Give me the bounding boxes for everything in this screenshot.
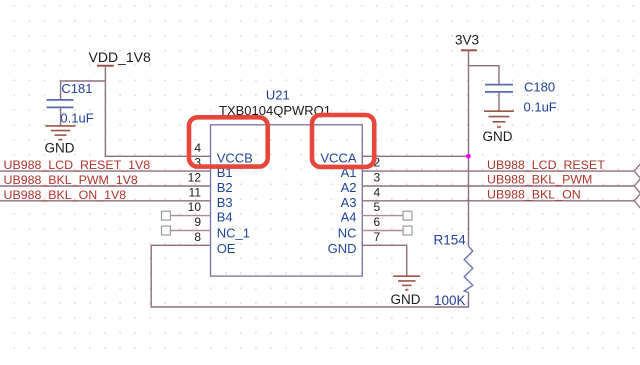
junction dot <box>466 154 471 159</box>
svg-text:A4: A4 <box>341 210 357 225</box>
svg-text:7: 7 <box>373 230 380 244</box>
off-page connector chevron BKL_PWM <box>634 177 640 194</box>
wire 3V3 vertical <box>468 50 470 246</box>
svg-text:OE: OE <box>217 241 236 256</box>
svg-text:VCCB: VCCB <box>217 150 253 165</box>
svg-text:8: 8 <box>194 230 201 244</box>
pin stub NC <box>362 230 403 232</box>
svg-text:NC_1: NC_1 <box>217 226 250 241</box>
svg-text:NC: NC <box>338 226 357 241</box>
highlight box VCCA <box>312 115 374 167</box>
pin stub A4 <box>362 215 403 217</box>
highlight box VCCB <box>189 117 268 166</box>
svg-text:R154: R154 <box>434 233 467 248</box>
wire net UB988_LCD_RESET <box>362 170 635 172</box>
op IC U21 body <box>211 125 363 276</box>
wire C181 branch <box>61 81 106 100</box>
svg-text:B2: B2 <box>217 180 233 195</box>
svg-text:A2: A2 <box>341 180 357 195</box>
svg-text:3V3: 3V3 <box>455 32 479 47</box>
power symbol 3V3 <box>455 32 479 50</box>
svg-text:C181: C181 <box>61 81 92 96</box>
svg-text:B4: B4 <box>217 210 233 225</box>
svg-text:0.1uF: 0.1uF <box>524 99 557 114</box>
svg-text:UB988_LCD_RESET: UB988_LCD_RESET <box>487 158 605 172</box>
svg-text:VCCA: VCCA <box>320 150 356 165</box>
no-connect square NC_1 <box>162 226 171 235</box>
svg-text:VDD_1V8: VDD_1V8 <box>89 49 151 65</box>
ground below C180 <box>483 111 515 144</box>
svg-text:U21: U21 <box>266 88 290 103</box>
pin stub B4 <box>171 215 211 217</box>
svg-text:B3: B3 <box>217 195 233 210</box>
wire VDD_1V8 vertical <box>105 66 210 157</box>
svg-text:UB988_BKL_ON_1V8: UB988_BKL_ON_1V8 <box>4 188 127 202</box>
wire net UB988_BKL_ON_1V8 <box>0 200 211 202</box>
svg-text:GND: GND <box>328 241 357 256</box>
ground below C181 <box>45 126 76 156</box>
capacitor C180 <box>485 79 557 114</box>
wire net UB988_BKL_PWM <box>362 185 635 187</box>
svg-text:12: 12 <box>188 171 202 185</box>
ground below IC <box>391 276 421 307</box>
svg-text:0.1uF: 0.1uF <box>60 111 93 126</box>
svg-text:10: 10 <box>188 200 202 214</box>
wire net UB988_LCD_RESET_1V8 <box>0 170 211 172</box>
pin stub NC_1 <box>171 230 211 232</box>
svg-text:4: 4 <box>373 185 380 199</box>
svg-text:6: 6 <box>373 215 380 229</box>
wire GND pin <box>362 245 406 276</box>
wire net UB988_BKL_ON <box>362 200 635 202</box>
svg-text:UB988_BKL_PWM_1V8: UB988_BKL_PWM_1V8 <box>4 173 138 187</box>
wire VCCA to 3V3 <box>362 155 468 157</box>
svg-text:100K: 100K <box>434 293 466 308</box>
svg-text:GND: GND <box>391 292 421 307</box>
wire OE to R154 bottom <box>151 245 468 307</box>
svg-text:GND: GND <box>483 129 513 144</box>
svg-text:UB988_BKL_PWM: UB988_BKL_PWM <box>487 173 592 187</box>
wire C180 branch <box>469 66 500 85</box>
svg-text:GND: GND <box>45 141 75 156</box>
off-page connector chevron BKL_ON <box>634 192 640 209</box>
wire net UB988_BKL_PWM_1V8 <box>0 185 211 187</box>
svg-text:9: 9 <box>194 215 201 229</box>
off-page connector chevron LCD_RESET <box>634 163 640 180</box>
wire C181 to ground <box>60 107 62 125</box>
svg-text:11: 11 <box>189 185 202 199</box>
svg-text:A3: A3 <box>341 195 357 210</box>
svg-text:4: 4 <box>194 141 201 155</box>
pin number 1 (mostly hidden behind highlight box) <box>375 145 376 147</box>
capacitor C181 <box>47 81 94 126</box>
no-connect square B4 <box>162 211 171 220</box>
power symbol VDD_1V8 <box>89 49 151 66</box>
svg-text:UB988_BKL_ON: UB988_BKL_ON <box>487 188 581 202</box>
svg-text:UB988_LCD_RESET_1V8: UB988_LCD_RESET_1V8 <box>4 158 151 172</box>
svg-text:3: 3 <box>373 171 380 185</box>
wire C180 to ground <box>498 92 500 111</box>
no-connect square A4 <box>403 211 412 220</box>
svg-text:C180: C180 <box>524 79 555 94</box>
resistor R154 <box>434 233 473 308</box>
no-connect square NC <box>403 226 412 235</box>
svg-text:5: 5 <box>373 200 380 214</box>
